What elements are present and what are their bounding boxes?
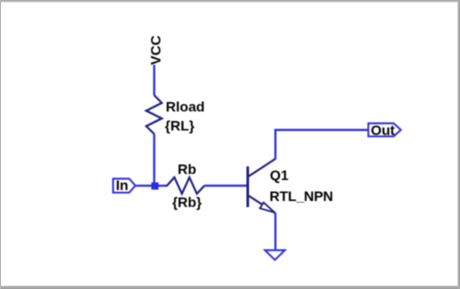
svg-text:RTL_NPN: RTL_NPN [270,188,334,204]
svg-text:Q1: Q1 [270,167,289,183]
svg-text:In: In [116,177,128,193]
svg-text:Out: Out [371,122,395,138]
svg-text:{RL}: {RL} [165,117,195,133]
svg-text:Rb: Rb [178,161,197,177]
svg-text:Rload: Rload [166,98,205,114]
svg-text:VCC: VCC [147,35,163,65]
svg-text:{Rb}: {Rb} [172,194,202,210]
